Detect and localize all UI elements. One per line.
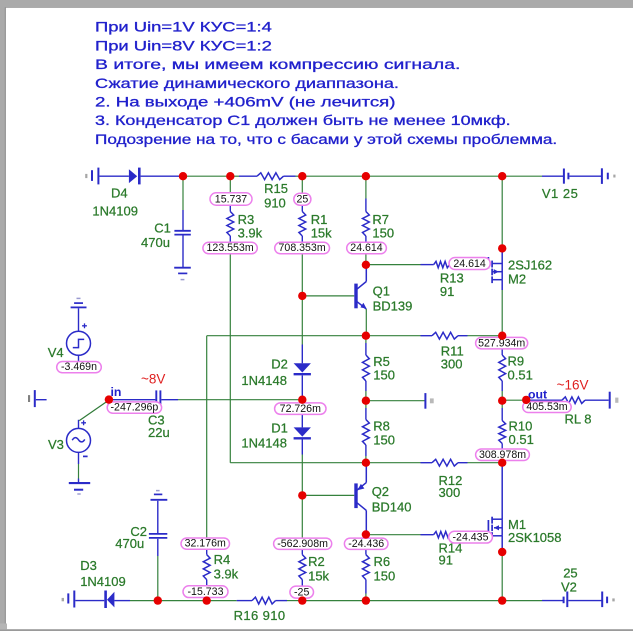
ground (V3) <box>69 482 90 484</box>
svg-text:32.176m: 32.176m <box>185 538 226 550</box>
svg-text:Подозрение на то, что с басами: Подозрение на то, что с басами у этой сх… <box>95 133 557 148</box>
wire <box>301 176 303 198</box>
diode D3 <box>104 591 107 609</box>
wire <box>287 600 302 602</box>
svg-text:D2: D2 <box>271 357 288 372</box>
resistor R10 <box>501 408 503 421</box>
mosfet M1 2SK1058 <box>501 463 503 520</box>
wire <box>302 295 354 297</box>
svg-text:R8: R8 <box>373 418 390 433</box>
svg-text:708.353m: 708.353m <box>279 242 326 254</box>
node M2 drain <box>498 244 506 252</box>
node R9/R10 <box>498 397 506 405</box>
wire <box>468 462 503 464</box>
resistor R11 <box>421 335 433 337</box>
node R11/R9 <box>498 332 506 340</box>
node R4 bottom <box>203 596 211 604</box>
wire <box>158 600 207 602</box>
wire <box>301 495 303 538</box>
svg-text:150: 150 <box>372 225 394 240</box>
svg-text:72.726m: 72.726m <box>280 403 321 415</box>
svg-text:M2: M2 <box>508 271 526 286</box>
wire <box>502 175 542 177</box>
wire <box>301 254 303 296</box>
node in <box>105 395 113 403</box>
wire <box>365 456 367 463</box>
resistor R16 <box>237 600 252 602</box>
wire <box>365 176 367 198</box>
svg-text:1N4109: 1N4109 <box>92 204 138 219</box>
svg-text:25: 25 <box>563 566 577 581</box>
value box 527.934m (node R11/R9) <box>476 337 528 349</box>
resistor R12 <box>421 462 433 464</box>
wire <box>501 290 503 336</box>
svg-text:R6: R6 <box>374 554 391 569</box>
wire <box>501 336 503 343</box>
node out <box>522 396 530 404</box>
svg-text:V1 25: V1 25 <box>542 186 578 201</box>
value box 25 (node R1 top) <box>294 193 311 205</box>
terminal in <box>28 395 30 402</box>
svg-text:in: in <box>111 385 122 399</box>
value box -25 (R2 bottom) <box>290 586 314 598</box>
svg-text:150: 150 <box>374 568 396 583</box>
wire <box>365 336 367 343</box>
wire <box>502 399 526 401</box>
svg-text:300: 300 <box>439 485 461 500</box>
node R7/R13 <box>362 261 370 269</box>
battery V1 <box>542 175 564 177</box>
value box -15.733 (R4 bottom) <box>183 586 228 598</box>
wire <box>301 296 303 336</box>
wire <box>178 399 302 401</box>
svg-text:2SK1058: 2SK1058 <box>508 530 562 545</box>
svg-text:V4: V4 <box>48 345 64 360</box>
wire <box>501 176 503 248</box>
resistor R2 <box>301 549 303 555</box>
svg-text:2SJ162: 2SJ162 <box>508 258 552 273</box>
diode D4 <box>129 169 137 183</box>
wire <box>75 600 104 602</box>
svg-text:-247.296p: -247.296p <box>111 402 159 414</box>
svg-text:R4: R4 <box>214 552 231 567</box>
svg-text:V2: V2 <box>561 580 577 595</box>
svg-text:~16V: ~16V <box>557 377 589 392</box>
node Q2 base <box>298 491 306 499</box>
wire <box>157 556 159 601</box>
value box -24.435 (M1 gate) <box>449 531 493 543</box>
value box 15.737 (node R3 top) <box>210 193 252 205</box>
resistor R4 <box>206 549 208 555</box>
svg-text:24.614: 24.614 <box>453 258 486 270</box>
wire <box>301 594 303 601</box>
svg-text:При Uin=8V КУС=1:2: При Uin=8V КУС=1:2 <box>95 39 272 54</box>
wire <box>365 309 367 336</box>
resistor R15 <box>239 175 257 177</box>
wire <box>365 401 367 408</box>
wire <box>366 400 425 402</box>
svg-text:470u: 470u <box>141 235 170 250</box>
svg-text:91: 91 <box>440 284 454 299</box>
node R1 top <box>298 172 306 180</box>
ground (C2) <box>151 499 168 501</box>
svg-text:Q1: Q1 <box>373 284 390 299</box>
wire <box>366 264 421 266</box>
resistor R5 <box>365 343 367 355</box>
resistor R6 <box>365 549 367 555</box>
terminal bottom-left <box>62 598 64 601</box>
svg-text:-15.733: -15.733 <box>188 586 224 598</box>
svg-text:~8V: ~8V <box>141 371 165 386</box>
terminal out <box>609 392 611 409</box>
svg-text:910: 910 <box>264 196 286 211</box>
wire <box>302 175 366 177</box>
value box -247.296p (node in) <box>107 402 161 413</box>
value box -24.436 (R6 top) <box>344 538 388 549</box>
svg-text:R9: R9 <box>508 354 525 369</box>
wire <box>302 494 354 496</box>
wire <box>301 336 303 345</box>
svg-text:1N4109: 1N4109 <box>80 574 126 589</box>
svg-text:1N4148: 1N4148 <box>241 435 287 450</box>
svg-text:15.737: 15.737 <box>215 194 248 206</box>
wire <box>366 175 502 177</box>
node R5/R11 <box>362 332 370 340</box>
svg-text:3.9k: 3.9k <box>238 225 263 240</box>
node Q2/R14 <box>362 530 370 538</box>
svg-text:BD139: BD139 <box>373 299 413 314</box>
node Q1 base <box>298 292 306 300</box>
value box 308.978m (node R10/R12) <box>476 449 530 461</box>
node D1/D2 <box>298 396 306 404</box>
svg-text:2. На выходе +406mV (не лечитс: 2. На выходе +406mV (не лечится) <box>95 95 395 110</box>
value box 32.176m (R4 top) <box>181 538 230 549</box>
ground (C1) <box>174 267 191 269</box>
node R7 top <box>362 172 370 180</box>
resistor R7 <box>365 199 367 212</box>
svg-text:150: 150 <box>373 432 395 447</box>
node V1/M2 drain <box>498 172 506 180</box>
wire <box>468 335 503 337</box>
svg-text:1N4148: 1N4148 <box>241 373 287 388</box>
ground (V4) <box>71 306 87 308</box>
transistor Q1 <box>354 284 357 309</box>
value box 24.614 (M2 gate) <box>449 258 490 270</box>
node R3/R15 <box>226 172 234 180</box>
svg-text:0.51: 0.51 <box>508 368 533 383</box>
svg-text:D4: D4 <box>111 186 128 201</box>
wire <box>366 600 502 602</box>
wire <box>206 594 208 601</box>
wire <box>296 175 303 177</box>
wire <box>365 594 367 601</box>
svg-text:Q2: Q2 <box>372 484 389 499</box>
svg-text:300: 300 <box>441 356 463 371</box>
diode D2 <box>301 345 303 364</box>
svg-text:-24.435: -24.435 <box>453 531 489 543</box>
value box 708.353m (R1 bottom) <box>275 242 330 254</box>
capacitor C2 <box>157 501 159 534</box>
node M1 source <box>498 548 506 556</box>
wire <box>207 600 237 602</box>
value box -3.469n (V4) <box>57 362 102 373</box>
wire <box>366 462 421 464</box>
node M1/V2 <box>498 596 506 604</box>
wire <box>99 175 128 177</box>
svg-text:3.9k: 3.9k <box>214 567 239 582</box>
wire <box>365 391 367 401</box>
node R2 bottom <box>298 596 306 604</box>
wire <box>501 552 503 601</box>
svg-text:-562.908m: -562.908m <box>277 538 328 550</box>
wire <box>502 600 542 602</box>
value box 24.614 (R7 bottom) <box>347 242 387 254</box>
source V4 <box>78 308 80 331</box>
wire <box>501 401 503 408</box>
node R8/R12 <box>362 459 370 467</box>
wire <box>302 600 366 602</box>
svg-text:RL 8: RL 8 <box>565 412 592 427</box>
svg-text:При Uin=1V КУС=1:4: При Uin=1V КУС=1:4 <box>95 20 272 35</box>
terminal mid <box>424 393 426 409</box>
capacitor C1 <box>182 210 184 230</box>
wire <box>230 462 366 464</box>
svg-text:91: 91 <box>439 552 453 567</box>
node R6 bottom <box>362 596 370 604</box>
svg-text:0.51: 0.51 <box>509 432 534 447</box>
wire <box>366 335 421 337</box>
mosfet M2 2SJ162 <box>501 248 503 263</box>
wire <box>365 254 367 265</box>
wire <box>130 600 158 602</box>
svg-text:В итоге, мы имеем компрессию с: В итоге, мы имеем компрессию сигнала. <box>95 57 460 72</box>
svg-text:D1: D1 <box>271 420 288 435</box>
svg-text:24.614: 24.614 <box>350 242 383 254</box>
svg-text:405.53m: 405.53m <box>526 401 567 413</box>
node C1/D4 <box>179 172 187 180</box>
resistor RL <box>526 399 562 401</box>
transistor Q2 <box>354 483 357 508</box>
svg-text:150: 150 <box>373 367 395 382</box>
node R10/R12 <box>498 459 506 467</box>
resistor R3 <box>229 199 231 212</box>
svg-text:15k: 15k <box>308 568 329 583</box>
wire <box>183 175 230 177</box>
terminal top-left <box>85 174 87 178</box>
wire <box>230 175 239 177</box>
resistor R9 <box>501 343 503 355</box>
svg-text:3. Конденсатор C1 должен быть: 3. Конденсатор C1 должен быть не менее 1… <box>95 114 511 128</box>
svg-text:BD140: BD140 <box>372 499 412 514</box>
svg-text:R2: R2 <box>308 554 325 569</box>
capacitor C3 <box>109 399 155 401</box>
value box 72.726m (node D1/D2) <box>275 403 326 415</box>
wire <box>229 176 231 198</box>
value box -562.908m (R2 top) <box>274 538 332 549</box>
resistor R1 <box>301 199 303 212</box>
wire <box>501 391 503 401</box>
svg-text:123.553m: 123.553m <box>207 242 254 254</box>
svg-text:15k: 15k <box>311 225 332 240</box>
wire <box>501 456 503 463</box>
value box 123.553m (R3 bottom) <box>203 242 257 254</box>
svg-text:R16 910: R16 910 <box>234 608 286 623</box>
battery V2 <box>542 600 564 602</box>
svg-text:R15: R15 <box>264 181 288 196</box>
wire <box>301 455 303 496</box>
resistor R14 <box>421 534 434 536</box>
svg-text:V3: V3 <box>48 437 64 452</box>
resistor R8 <box>365 408 367 420</box>
svg-text:470u: 470u <box>115 536 144 551</box>
value box 405.53m (node out) <box>523 402 572 413</box>
wire <box>229 254 231 463</box>
source V3 <box>78 420 80 429</box>
wire <box>365 535 367 539</box>
node C2 bottom <box>154 596 162 604</box>
wire <box>366 534 421 536</box>
svg-text:D3: D3 <box>80 558 97 573</box>
wire <box>207 335 366 337</box>
svg-text:C1: C1 <box>154 221 171 236</box>
resistor R13 <box>421 264 434 266</box>
wire <box>206 336 208 538</box>
wire <box>182 176 184 210</box>
node R5/R8 <box>362 397 370 405</box>
svg-text:Сжатие динамического диаппазон: Сжатие динамического диаппазона. <box>95 77 399 91</box>
wire <box>79 400 108 420</box>
svg-text:25: 25 <box>297 194 309 206</box>
diode D1 <box>301 414 303 428</box>
svg-text:-24.436: -24.436 <box>348 538 384 550</box>
svg-text:22u: 22u <box>148 425 170 440</box>
svg-text:-3.469n: -3.469n <box>61 361 97 373</box>
